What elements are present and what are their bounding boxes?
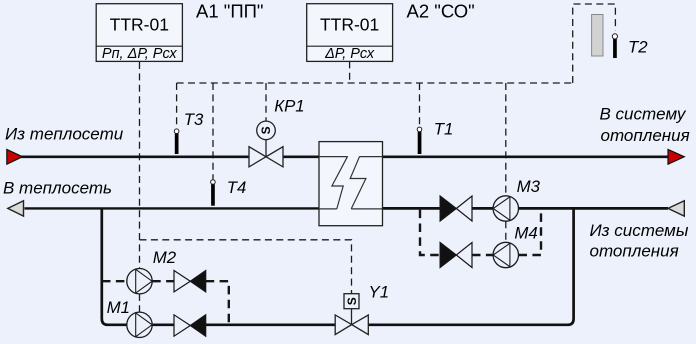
- svg-text:КР1: КР1: [274, 96, 304, 115]
- svg-text:A2 "СО": A2 "СО": [407, 1, 475, 22]
- svg-text:Из теплосети: Из теплосети: [5, 125, 124, 144]
- svg-text:В систему: В систему: [600, 105, 687, 124]
- svg-text:ΔР, Рсх: ΔР, Рсх: [324, 46, 375, 62]
- svg-text:М1: М1: [107, 298, 130, 317]
- svg-text:Т2: Т2: [628, 37, 648, 56]
- svg-text:TTR-01: TTR-01: [320, 15, 379, 35]
- svg-text:М4: М4: [514, 223, 537, 242]
- svg-text:A1 "ПП": A1 "ПП": [196, 1, 264, 22]
- svg-text:Т1: Т1: [434, 120, 454, 139]
- svg-text:TTR-01: TTR-01: [110, 15, 169, 35]
- svg-text:Рп, ΔР, Рсх: Рп, ΔР, Рсх: [102, 46, 178, 62]
- svg-text:М2: М2: [153, 248, 177, 267]
- svg-text:Y1: Y1: [369, 282, 390, 301]
- svg-text:S: S: [259, 126, 273, 134]
- svg-text:S: S: [345, 297, 359, 305]
- svg-text:отопления: отопления: [601, 126, 690, 145]
- svg-text:Из системы: Из системы: [590, 221, 689, 240]
- svg-text:В теплосеть: В теплосеть: [3, 178, 112, 197]
- svg-text:Т3: Т3: [184, 110, 204, 129]
- svg-text:М3: М3: [517, 177, 541, 196]
- svg-text:отопления: отопления: [590, 242, 679, 261]
- svg-text:Т4: Т4: [227, 178, 247, 197]
